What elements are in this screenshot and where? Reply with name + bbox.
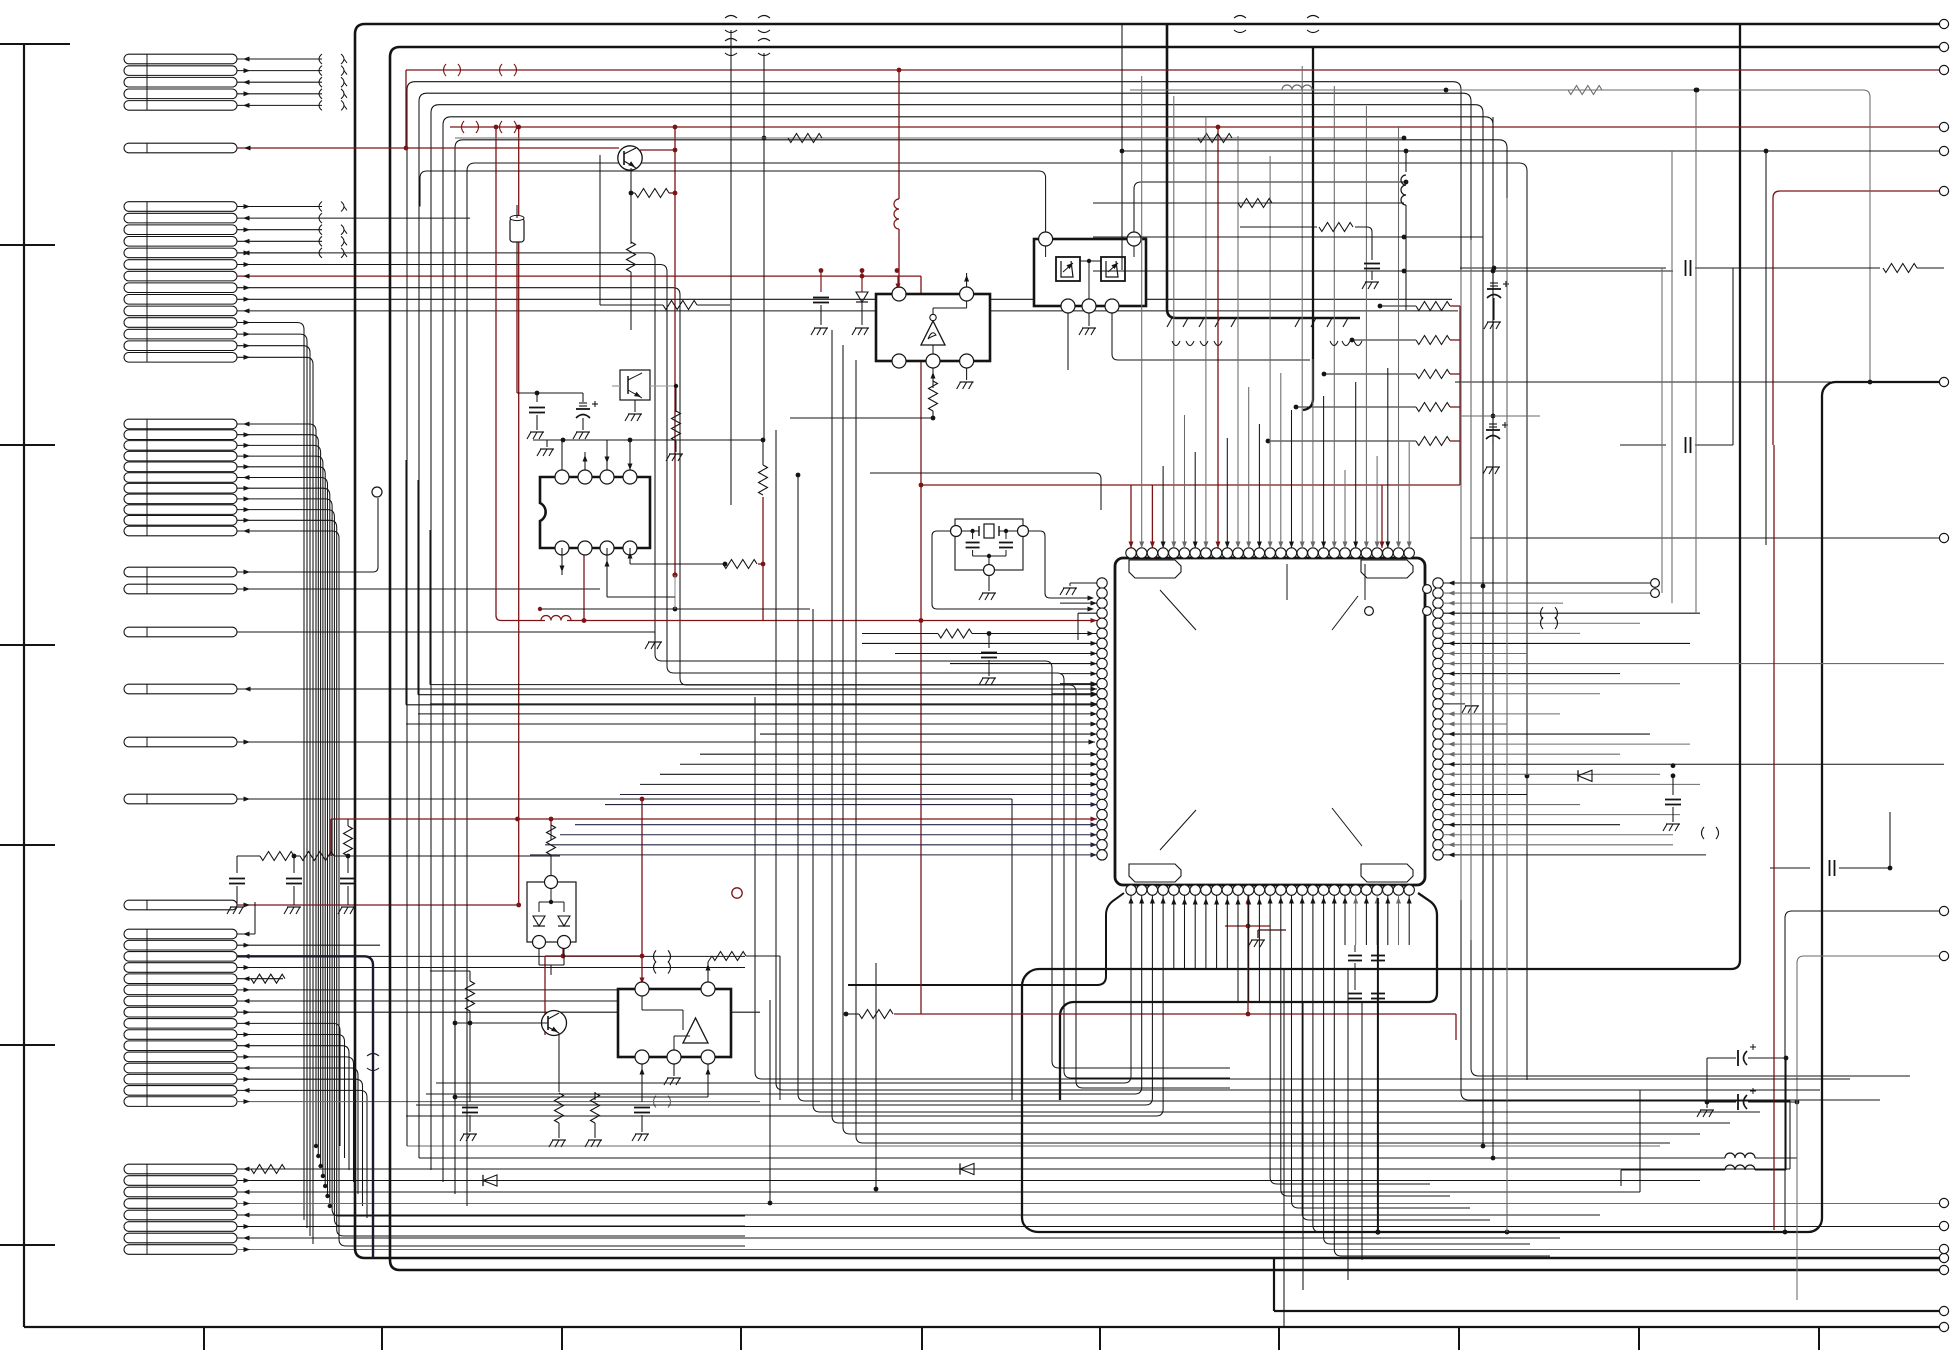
red vert from CN103 row7: [920, 276, 922, 1014]
cap C214 h right: [1770, 867, 1810, 869]
red arrow into U401 pin: [897, 276, 899, 290]
red vertical x1774: [1773, 445, 1775, 1230]
wire y151: [1122, 150, 1944, 152]
resistor R601: [260, 852, 294, 861]
IC501 pin2 up arrow: [584, 452, 586, 470]
wire CN111 row16: [237, 1101, 760, 1103]
red rail y1014: [894, 1013, 1456, 1015]
Q202 gnd: [634, 400, 636, 412]
audio amp IC601: [618, 989, 731, 1057]
IC601 pin wires: [707, 962, 709, 982]
coil on red feed: [894, 199, 899, 229]
wire x600 drop: [599, 155, 601, 305]
vertical risers from right fan: [1661, 268, 1663, 593]
transistor Q201: [618, 146, 642, 170]
cap C601 gnd: [236, 856, 238, 873]
nc circles right wires: [1651, 579, 1660, 588]
IC801 inner dashes: [1286, 564, 1288, 600]
terminal red y191: [1939, 186, 1948, 195]
IC501 gnd stub: [546, 440, 548, 447]
red net through L601: [541, 616, 571, 621]
IC801 nc circles: [1423, 585, 1432, 594]
terminal circles bottom right: [1939, 1253, 1948, 1262]
thick bus P1: [355, 24, 1944, 1258]
wire y538 to terminal: [1470, 537, 1944, 539]
connector CN109 (1 pin): [124, 794, 237, 804]
resistor R613 gnd: [555, 1093, 564, 1123]
bottom right vertical drops: [1283, 969, 1285, 1327]
page border frame with ticks: [23, 44, 25, 1327]
riser x1766: [1765, 151, 1767, 545]
diode bridge D601: [527, 882, 576, 942]
wires from CN101: [237, 58, 322, 60]
wire y416 left: [1460, 415, 1540, 417]
resistor R801 pin wire: [862, 633, 938, 635]
wires CN111 rows9-15 bundle down: [237, 1023, 340, 1146]
connector CN107 (1 pin): [124, 684, 237, 694]
ground below IC801: [1257, 930, 1259, 938]
IC801 corner marks: [1160, 590, 1196, 630]
resistor ladder R201-R205: [1416, 302, 1450, 311]
cap C204 gnd: [582, 393, 584, 402]
red dot node: [672, 572, 677, 577]
PC301 bottom wires: [1067, 313, 1069, 370]
red branch QFP left pin: [763, 620, 1097, 622]
resistor R220: [1568, 86, 1602, 95]
wire CN106 to ground: [237, 631, 655, 633]
wire y597 stub: [607, 596, 675, 598]
cap C802 gnd: [1672, 776, 1674, 795]
red net VCC3 top right: [1773, 191, 1944, 445]
terminal y911: [1939, 906, 1948, 915]
red drops to QFP top pins: [1130, 485, 1132, 548]
wire CN103 row2 long: [322, 217, 470, 219]
terminal y382: [1939, 377, 1948, 386]
cap C210 h: [1460, 267, 1666, 269]
coil L602: [1725, 1153, 1755, 1158]
wire y856: [334, 855, 560, 857]
resistor R502 x763: [759, 465, 768, 495]
connector CN111 (16 pins): [124, 929, 237, 939]
thick bus P5b: [1060, 893, 1437, 1100]
wire y609: [540, 608, 810, 610]
vertical from top bus x731: [730, 30, 732, 505]
bridge lower wires: [538, 949, 540, 965]
thick bus P2: [390, 47, 1944, 1270]
resistor R602: [300, 852, 334, 861]
resistor on link y203: [1238, 199, 1272, 208]
cap C203 gnd: [536, 393, 538, 402]
wire below R211: [630, 272, 632, 330]
wires CN105 and test point: [237, 498, 378, 572]
wire above crystal: [870, 473, 1101, 510]
cap C602 gnd: [293, 856, 295, 873]
red L at QFP bottom: [1247, 895, 1249, 1014]
transistor Q601: [542, 1011, 567, 1036]
crystal oscillator X501: [955, 519, 1023, 570]
dual photocoupler PC301: [1034, 239, 1146, 306]
break marks top bus: [725, 16, 737, 19]
red ladder vertical: [1459, 306, 1461, 485]
terminal band y1224: [1939, 1221, 1948, 1230]
resistor R221: [1883, 264, 1917, 273]
microprocessor IC801 (QFP): [1115, 558, 1425, 885]
R214 below Q202: [672, 411, 681, 441]
X501 ground: [988, 576, 990, 591]
red drop to R212: [674, 127, 676, 575]
terminal circles bus P1 P2: [1939, 19, 1948, 28]
terminal red y70: [1939, 65, 1948, 74]
wires CN112 band: [237, 1168, 1790, 1170]
band wires upper: [407, 1145, 1660, 1147]
band wire risers: [1789, 1100, 1791, 1169]
bus tap marks: [1172, 341, 1180, 346]
IC801 bottom pin fan wires: [436, 895, 1131, 1083]
thick bus bottom-left L: [848, 893, 1124, 985]
U401 pin4 down chain: [932, 368, 934, 388]
red rail y485: [921, 484, 1460, 486]
red net break marks: [444, 64, 447, 76]
cap C612 gnd: [641, 1092, 643, 1102]
Q601 base wire: [455, 1022, 548, 1024]
wire CN103 row7 (red supply): [237, 275, 921, 277]
gnd for C215 C216: [1706, 1058, 1708, 1108]
terminal red y127: [1939, 122, 1948, 131]
diode D101 on CN112 row2: [483, 1175, 497, 1186]
resistor R611: [712, 952, 746, 961]
red circle marker: [732, 888, 742, 898]
IC601 pin6 down: [641, 1064, 643, 1092]
wire y90 gray: [1130, 90, 1870, 382]
resistor R211: [627, 242, 636, 272]
center staircase wires to bottom: [755, 697, 1850, 1079]
ecap C213 gnd: [1492, 416, 1494, 424]
diode D801: [1578, 770, 1592, 781]
photo transistor Q202: [620, 370, 650, 400]
wire C201: [516, 205, 518, 218]
IC801 left pin fan wires: [1060, 602, 1097, 604]
resistor on red rail: [859, 1010, 893, 1019]
left channel tails: [429, 530, 431, 685]
wires CN111 rows1-8: [237, 933, 255, 935]
ground bus rail: [1167, 25, 1360, 318]
wire R614 top: [594, 1092, 596, 1093]
thick bus P5a: [1312, 47, 1314, 400]
cap C603 gnd: [347, 856, 349, 873]
resistor R614 gnd: [591, 1093, 600, 1123]
IC501 pin7 down: [606, 548, 608, 597]
red stub x1456 down: [1455, 1014, 1457, 1040]
vertical from top bus x764: [763, 53, 765, 440]
connector CN112 (8 pins): [124, 1164, 237, 1174]
IC501 pin1 up: [561, 440, 563, 470]
resistor R101 on CN112 row1: [251, 1165, 285, 1174]
cap C211 h: [1620, 444, 1666, 446]
IC801 right pin fan wires: [1443, 582, 1655, 584]
red branch y819: [331, 818, 1097, 820]
IC501 pin5 down arrow: [561, 548, 563, 575]
junction dots right verticals: [1525, 774, 1530, 779]
coil L201: [1282, 85, 1312, 90]
connector CN106 (1 pin): [124, 627, 237, 637]
X501 wire to pin idx3: [932, 531, 1090, 609]
break marks right fan: [1541, 607, 1544, 619]
connector CN110 (1 pin): [124, 900, 237, 910]
terminal y956 route: [1797, 956, 1944, 1300]
PC301 center gnd: [1088, 313, 1090, 326]
ecap C216 h: [1707, 1101, 1736, 1103]
IC501 regulator: [540, 477, 650, 548]
terminal y1311: [1939, 1306, 1948, 1315]
wires into QFP left mid: [430, 684, 1097, 686]
connector CN101 (5 pins): [124, 54, 237, 64]
thick drop from IC801 bottom pin: [1377, 898, 1379, 1232]
wire y138 gray: [455, 137, 1404, 139]
resistor R212: [635, 189, 669, 198]
thin bus lines top-left channel: [407, 82, 1880, 1146]
break marks top bus right: [1234, 16, 1246, 19]
wire CN110 (red): [237, 904, 518, 906]
wires CN103 rows5-6 staircase: [237, 253, 1230, 1068]
Q601 emitter down: [558, 1033, 560, 1092]
connector CN103 (14 pins): [124, 202, 237, 212]
red net VCC2: [450, 126, 1944, 128]
RC network above IC801: [1240, 226, 1317, 228]
horizontal links above IC801: [1093, 202, 1404, 204]
wire y393: [517, 392, 583, 394]
connector CN104 (11 pins): [124, 419, 237, 429]
ground at CN106 wire: [648, 641, 662, 643]
IC501 pin8 chain: [629, 548, 631, 564]
R604 above bridge: [547, 825, 556, 855]
gray verticals right of QFP: [1460, 270, 1462, 900]
coil L202 v: [1405, 151, 1407, 172]
red net VCC1: [237, 147, 619, 149]
vertical x1122: [1121, 25, 1123, 270]
resistor R213 on h wire: [663, 301, 697, 310]
diode D201 with ground: [861, 271, 863, 293]
op-amp U401: [876, 294, 990, 361]
Q202 collector wire: [650, 385, 676, 387]
IC501 pin3 up arrow: [606, 440, 608, 470]
wire Q201 emitter down: [630, 168, 632, 244]
terminal y151: [1939, 146, 1948, 155]
gnd stub IC801 pin idx0: [1070, 582, 1097, 584]
resistor R603 v: [344, 826, 353, 856]
PC301 pin wires up: [420, 171, 1046, 232]
IC501 pin4 feed: [630, 439, 764, 441]
terminal y956: [1939, 951, 1948, 960]
IC601 gnd pin: [673, 1064, 675, 1076]
wires CN103 rows8-10: [237, 288, 1230, 1088]
resistor R503: [723, 560, 757, 569]
cap C202 with ground: [820, 271, 822, 293]
red net to IC601 top pin: [562, 933, 564, 956]
red vertical to QFP pin: [1217, 127, 1219, 548]
X501 wire to pin idx1: [1029, 531, 1090, 598]
coil L603: [1725, 1165, 1755, 1170]
wires CN103 rows11-14 bus bend: [237, 323, 304, 1221]
cap C801: [988, 634, 990, 649]
caps below IC801: [1354, 945, 1356, 952]
connector CN102 (1 pin): [124, 143, 237, 153]
terminal y911 route: [1785, 911, 1944, 1232]
red vertical from IC501 pin6: [583, 553, 585, 621]
connector CN105 (2 pins): [124, 567, 237, 577]
red vertical left channel: [518, 127, 520, 905]
R612 chain: [430, 970, 470, 972]
connector CN108 (1 pin): [124, 737, 237, 747]
IC601 pin8 down: [707, 1064, 709, 1097]
red branch rail: [496, 127, 545, 621]
diode D102 on CN112 row1: [960, 1163, 974, 1174]
wire y382 to terminal: [1455, 381, 1944, 383]
thick bus P4: [1022, 24, 1944, 1232]
U401 pin2 up arrow: [966, 273, 968, 287]
junction dots red rail: [819, 268, 824, 273]
riser x1274: [1273, 1258, 1275, 1311]
red riser x763: [762, 497, 764, 621]
thick bus from CN111 row3 path: [237, 956, 373, 1258]
wire y418: [790, 417, 933, 419]
terminal band y1245: [1939, 1244, 1948, 1253]
U401 pin5 gnd: [966, 368, 968, 380]
wire Q201 right branch: [640, 149, 675, 151]
capacitor tube C201: [510, 218, 524, 242]
IC801 top pin fan wires: [1141, 76, 1143, 548]
cap C611 gnd: [462, 1107, 478, 1109]
wires from CN103 rows1-5: [237, 206, 322, 208]
wire CN108 to IC601 pin: [237, 741, 1095, 743]
red stub x331: [330, 819, 332, 856]
thick bottom terminal wire: [1274, 1310, 1944, 1312]
ecap C215 h: [1707, 1057, 1736, 1059]
terminal band y1202: [1939, 1198, 1948, 1207]
terminal y538: [1939, 533, 1948, 542]
vert x1890: [1889, 812, 1891, 868]
wire CN109: [237, 798, 1012, 800]
wires CN104 bundle down: [237, 424, 316, 1146]
ecap C212 gnd: [1492, 271, 1494, 283]
wire CN107: [237, 688, 1097, 690]
IC501 top rail: [533, 439, 630, 441]
